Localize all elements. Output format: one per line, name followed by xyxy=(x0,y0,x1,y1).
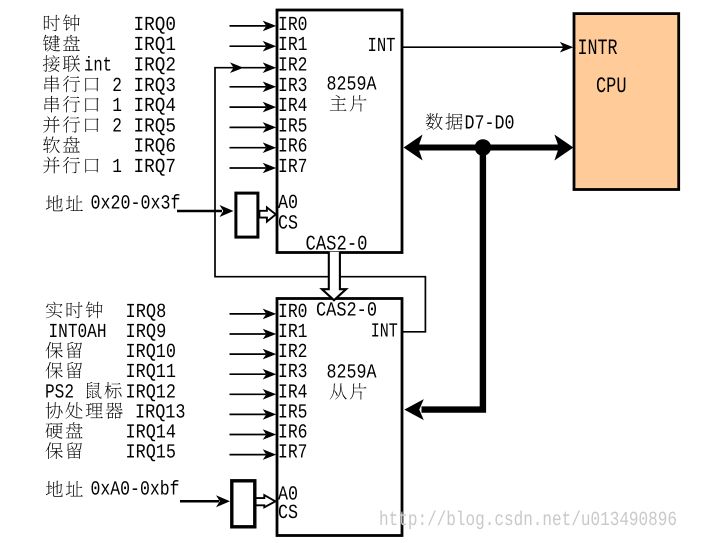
label row master IRQ6 xyxy=(43,136,176,159)
data bus junction dot xyxy=(475,139,492,156)
data bus horizontal xyxy=(413,145,565,151)
wire slave INT to master IR2 xyxy=(215,68,425,332)
svg-text:IRQ15: IRQ15 xyxy=(126,442,177,465)
wire IRQ0 arrow into master IR0 xyxy=(230,25,267,27)
svg-text:INT0AH: INT0AH xyxy=(49,321,107,344)
arrowhead IR2 at chip xyxy=(263,62,277,73)
数据D7-D0 label xyxy=(426,113,463,130)
wire IRQ12 arrow into slave IR4 xyxy=(230,393,267,395)
svg-text:IRQ7: IRQ7 xyxy=(134,156,177,179)
CPU box xyxy=(574,14,679,190)
wire IRQ7 arrow into master IR7 xyxy=(230,167,267,169)
svg-text:IR7: IR7 xyxy=(278,442,308,465)
data bus vertical to slave xyxy=(422,150,483,410)
label 地址 0xA0-0xbf xyxy=(46,481,83,497)
wire IRQ13 arrow into slave IR5 xyxy=(230,413,267,415)
svg-text:0xA0-0xbf: 0xA0-0xbf xyxy=(91,478,180,501)
label row master IRQ4 xyxy=(45,95,177,118)
label row slave IRQ11 xyxy=(46,361,176,384)
wire address to decoder master xyxy=(177,210,222,213)
label row master IRQ0 xyxy=(44,14,176,37)
svg-text:CS: CS xyxy=(278,502,298,525)
svg-text:CS: CS xyxy=(278,213,298,236)
wire INT to INTR xyxy=(402,46,564,48)
svg-text:INT: INT xyxy=(371,321,398,344)
chip name 从片 xyxy=(330,383,367,400)
svg-text:2: 2 xyxy=(112,115,122,138)
chip name 主片 xyxy=(330,95,367,112)
IC U1: 8259A master chip box xyxy=(277,10,402,253)
label row master IRQ1 xyxy=(43,34,176,57)
label row master IRQ5 xyxy=(43,115,176,138)
wire IRQ14 arrow into slave IR6 xyxy=(230,434,267,436)
open arrow decoder to master A0/CS xyxy=(259,207,275,221)
label row master IRQ7 xyxy=(43,156,176,179)
label row slave IRQ15 xyxy=(46,442,176,465)
svg-text:0x20-0x3f: 0x20-0x3f xyxy=(91,193,181,216)
label row master IRQ2 xyxy=(43,55,176,78)
open arrow decoder to slave A0/CS xyxy=(256,495,276,507)
svg-text:D7-D0: D7-D0 xyxy=(465,113,515,136)
svg-text:INTR: INTR xyxy=(578,36,618,61)
wire IRQ5 arrow into master IR5 xyxy=(230,126,267,128)
label row master IRQ3 xyxy=(45,75,177,98)
wire IRQ8 arrow into slave IR0 xyxy=(230,313,267,315)
label 地址 0x20-0x3f xyxy=(46,195,83,211)
hollow CAS2-0 bus arrow master->slave xyxy=(322,252,346,300)
wire IRQ3 arrow into master IR3 xyxy=(230,86,267,88)
svg-text:http://blog.csdn.net/u01349089: http://blog.csdn.net/u013490896 xyxy=(379,509,677,532)
svg-text:int: int xyxy=(84,55,112,78)
label row slave IRQ8 xyxy=(46,301,167,324)
wire IRQ4 arrow into master IR4 xyxy=(230,106,267,108)
label row slave IRQ12 xyxy=(45,381,176,404)
wire IRQ15 arrow into slave IR7 xyxy=(230,454,267,456)
svg-text:INT: INT xyxy=(368,35,396,58)
svg-text:IR7: IR7 xyxy=(278,156,308,179)
8259A slave chip box xyxy=(277,299,402,536)
svg-text:8259A: 8259A xyxy=(327,362,377,385)
wire IRQ1 arrow into master IR1 xyxy=(230,45,267,47)
svg-text:PS2: PS2 xyxy=(45,381,74,404)
label row slave IRQ10 xyxy=(46,341,176,364)
wire IRQ6 arrow into master IR6 xyxy=(230,147,267,149)
svg-text:CPU: CPU xyxy=(596,74,627,99)
decoder box master xyxy=(236,193,258,237)
svg-text:CAS2-0: CAS2-0 xyxy=(316,300,377,323)
wire IRQ11 arrow into slave IR3 xyxy=(230,373,267,375)
label row slave IRQ13 xyxy=(46,401,186,424)
label row slave IRQ9 xyxy=(49,321,167,344)
arrowhead mid IR2 xyxy=(230,62,244,73)
svg-text:1: 1 xyxy=(112,156,122,179)
label row slave IRQ14 xyxy=(46,422,177,445)
wire IRQ9 arrow into slave IR1 xyxy=(230,333,267,335)
svg-text:8259A: 8259A xyxy=(327,73,377,96)
decoder box slave xyxy=(232,481,255,527)
wire IRQ10 arrow into slave IR2 xyxy=(230,353,267,355)
wire address to decoder slave xyxy=(180,500,219,503)
